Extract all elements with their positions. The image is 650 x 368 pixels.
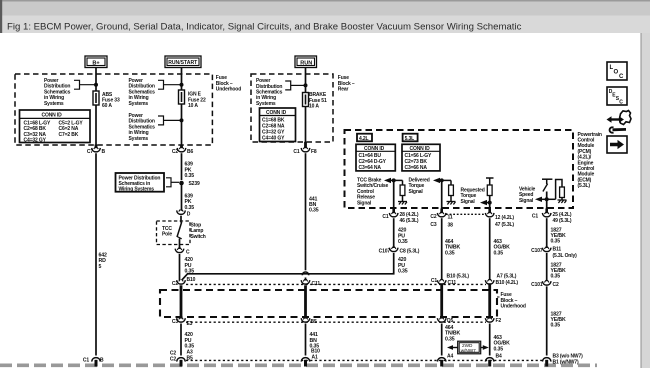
svg-text:C107: C107 bbox=[531, 248, 543, 254]
svg-text:B10 (4.2L): B10 (4.2L) bbox=[496, 280, 519, 286]
svg-text:60 A: 60 A bbox=[102, 103, 112, 109]
svg-text:C2: C2 bbox=[170, 356, 176, 362]
svg-text:(5.3L): (5.3L) bbox=[578, 183, 591, 189]
wire delivered to pin bbox=[441, 180, 443, 213]
svg-text:Signal: Signal bbox=[409, 189, 424, 195]
svg-text:38: 38 bbox=[448, 222, 454, 228]
svg-text:B10 (5.3L): B10 (5.3L) bbox=[447, 273, 470, 279]
bottom cut-off dashed edge (EBCM boundary) bbox=[0, 363, 597, 367]
connector B4 bottom bbox=[485, 358, 494, 362]
4.2L tag box bbox=[357, 134, 372, 142]
wire 639 PK 0.35 lower bbox=[181, 183, 183, 211]
svg-text:D5: D5 bbox=[447, 318, 453, 324]
svg-text:4.2L: 4.2L bbox=[359, 136, 369, 142]
svg-text:C2: C2 bbox=[172, 149, 178, 155]
fuse IGN E Fuse 22 10 A bbox=[179, 90, 185, 104]
wire: RUN/START down to fuse bbox=[181, 68, 183, 91]
svg-text:C2: C2 bbox=[430, 214, 436, 220]
svg-text:C1: C1 bbox=[431, 278, 437, 284]
svg-text:C2: C2 bbox=[172, 281, 178, 287]
wire 463 OG/BK 0.35 bbox=[489, 218, 491, 280]
CONN ID table 5.3L bbox=[402, 144, 440, 171]
wire: B+ down through fuse block bbox=[95, 68, 97, 92]
svg-text:0.35: 0.35 bbox=[398, 269, 408, 275]
sidebar icon DESC button bbox=[607, 87, 627, 105]
svg-text:0.35: 0.35 bbox=[185, 205, 195, 211]
thick wire segments through block bbox=[180, 285, 183, 318]
svg-text:B6: B6 bbox=[187, 149, 193, 155]
svg-text:0.35: 0.35 bbox=[445, 336, 455, 342]
connector B10/A1 bottom bbox=[301, 358, 310, 362]
svg-text:Pole: Pole bbox=[162, 232, 172, 238]
svg-text:A7 (5.3L): A7 (5.3L) bbox=[497, 273, 517, 279]
svg-text:0.35: 0.35 bbox=[309, 208, 319, 214]
svg-text:B4: B4 bbox=[496, 353, 502, 359]
bottom pass-through dotted line bbox=[186, 359, 542, 361]
svg-text:0.35: 0.35 bbox=[445, 250, 455, 256]
svg-text:C3: C3 bbox=[172, 319, 178, 325]
wire below ABS fuse to C7 bbox=[95, 105, 97, 148]
CONN ID table 4.2L bbox=[356, 144, 395, 171]
left window edge bbox=[0, 0, 2, 33]
wire 441 BN 0.35 (to EBCM) bbox=[305, 324, 307, 356]
svg-text:Underhood: Underhood bbox=[501, 304, 526, 310]
svg-text:C7=2 BK: C7=2 BK bbox=[59, 132, 79, 138]
svg-text:(5.3L Only): (5.3L Only) bbox=[553, 253, 578, 259]
connector C1 pins 25/49 bbox=[542, 212, 551, 217]
svg-text:C: C bbox=[619, 100, 623, 106]
svg-text:0.35: 0.35 bbox=[494, 346, 504, 352]
stop lamp switch blade (TCC pole) bbox=[180, 216, 182, 223]
connector C107 / B11 (5.3L Only) bbox=[542, 247, 551, 252]
wire 642 RD 5 down left side bbox=[95, 153, 97, 355]
connector A4 bottom bbox=[437, 358, 446, 362]
svg-text:F8: F8 bbox=[311, 149, 317, 155]
svg-text:0.35: 0.35 bbox=[398, 239, 408, 245]
connector C1 / B bottom left bbox=[92, 358, 101, 362]
signal: Vehicle Speed Signal bbox=[519, 187, 536, 204]
svg-text:C11: C11 bbox=[448, 280, 457, 286]
svg-text:0.35: 0.35 bbox=[494, 250, 504, 256]
PCM/ECM dashed box bbox=[345, 130, 574, 208]
svg-text:C1: C1 bbox=[293, 149, 299, 155]
svg-text:Signal: Signal bbox=[357, 200, 372, 206]
connector pins 12/47 bbox=[485, 212, 494, 217]
connector B5 (block output mid) bbox=[301, 317, 310, 322]
svg-text:Wiring Systems: Wiring Systems bbox=[119, 186, 155, 192]
pointer bracket to RUN/START wire bbox=[158, 80, 182, 89]
wire 463 OG/BK 0.35 (to EBCM) bbox=[489, 324, 491, 356]
svg-text:47 (5.3L): 47 (5.3L) bbox=[495, 222, 514, 228]
svg-text:0.35: 0.35 bbox=[551, 323, 561, 329]
svg-text:C: C bbox=[186, 250, 190, 256]
pull-down resistor (TCC) bbox=[402, 180, 404, 185]
splice S239 bbox=[179, 181, 184, 186]
connector D5 (block output) bbox=[437, 317, 446, 322]
svg-text:Underhood: Underhood bbox=[216, 87, 241, 93]
signal: Delivered Torque Signal bbox=[409, 178, 430, 195]
fuse ABS Fuse 33 60 A bbox=[93, 91, 99, 105]
2WD w/NW7 option box with arrows bbox=[458, 341, 481, 354]
CONN ID table (underhood) bbox=[20, 110, 91, 143]
svg-text:0.35: 0.35 bbox=[551, 274, 561, 280]
connector D (stop lamp switch input) bbox=[177, 209, 186, 214]
ground (delivered) bbox=[447, 202, 456, 205]
svg-text:D: D bbox=[187, 211, 191, 217]
svg-text:Fig 1: EBCM Power, Ground, Ser: Fig 1: EBCM Power, Ground, Serial Data, … bbox=[7, 22, 522, 33]
pointer bracket to RUN wire bbox=[285, 81, 305, 90]
svg-text:Systems: Systems bbox=[256, 101, 276, 107]
thick terminal stubs below PCM bbox=[392, 209, 395, 214]
svg-text:CONN ID: CONN ID bbox=[266, 110, 287, 116]
connector C2 / B10 (into underhood block) bbox=[177, 279, 186, 284]
connector C2 / B6 bbox=[177, 147, 186, 152]
svg-text:Systems: Systems bbox=[129, 136, 149, 142]
ground (VSS) bbox=[558, 200, 567, 203]
svg-text:0.35: 0.35 bbox=[551, 239, 561, 245]
RUN terminal box bbox=[295, 56, 317, 68]
note: Power Distribution Schematics (IGN feed upper) bbox=[129, 78, 156, 107]
svg-text:11: 11 bbox=[448, 214, 453, 220]
svg-text:C1: C1 bbox=[532, 213, 538, 219]
wire TCC to pin bbox=[393, 180, 395, 213]
junction dot on B+ wire bbox=[94, 83, 98, 87]
wire 420 PU 0.35 (PCM lower) bbox=[393, 253, 395, 273]
PCM pin row dotted link bbox=[446, 213, 486, 215]
svg-text:CONN ID: CONN ID bbox=[42, 113, 63, 119]
wire 1827 YE/BK 0.35 (lower) bbox=[546, 286, 548, 355]
underhood fuse block connector dashed box bbox=[160, 290, 497, 317]
svg-text:12 (4.2L): 12 (4.2L) bbox=[495, 215, 514, 221]
svg-text:Switch: Switch bbox=[191, 234, 206, 240]
svg-text:F2: F2 bbox=[496, 318, 502, 324]
connector C11 bbox=[301, 279, 310, 284]
wire 420 PU 0.35 (switch to junction) bbox=[179, 254, 181, 280]
pointer bracket to B+ wire bbox=[74, 80, 96, 89]
connector C3 / E3 (block output) bbox=[177, 317, 186, 322]
svg-text:RUN: RUN bbox=[300, 60, 312, 66]
svg-text:C107: C107 bbox=[379, 249, 391, 255]
wire 420 PU 0.35 (PCM upper) bbox=[393, 218, 395, 248]
note: Power Distribution Schematics (brake fuse) bbox=[256, 78, 283, 107]
svg-text:0.35: 0.35 bbox=[185, 173, 195, 179]
pull-down resistor (delivered) bbox=[450, 180, 452, 185]
wire 1827 YE/BK 0.35 (middle) bbox=[546, 253, 548, 281]
sidebar icon shortcut-arrow + wrench bbox=[607, 111, 632, 133]
svg-text:5: 5 bbox=[99, 264, 102, 270]
label: Fuse Block - Underhood bbox=[216, 75, 241, 92]
sidebar icon LOC button bbox=[607, 62, 627, 80]
svg-text:S239: S239 bbox=[189, 181, 200, 187]
pointer bracket to S239 bbox=[166, 178, 179, 187]
svg-text:C3: C3 bbox=[430, 222, 436, 228]
pass-through dotted line bottom row bbox=[186, 321, 486, 323]
label: Powertrain Control Module (PCM)(4.2L)/Engine Control Module (ECM)(5.3L) bbox=[578, 132, 602, 189]
VSS switch contact and blade bbox=[542, 178, 552, 180]
label: Fuse Block - Rear bbox=[338, 75, 355, 92]
svg-text:Signal: Signal bbox=[519, 198, 534, 204]
junction dot lower bbox=[180, 118, 184, 122]
connector C1 / F8 bbox=[301, 147, 310, 152]
connector C1 / B10 (5.3L) C11 bbox=[437, 279, 446, 284]
title bar bbox=[0, 16, 650, 34]
svg-text:C8 (5.3L): C8 (5.3L) bbox=[400, 249, 420, 255]
sidebar icon next-arrow button bbox=[607, 136, 627, 153]
svg-text:Rear: Rear bbox=[338, 87, 349, 93]
connector C2/C3 pins 11/38 bbox=[437, 212, 446, 217]
svg-text:C1: C1 bbox=[382, 214, 388, 220]
right scrollbar track bbox=[641, 33, 650, 368]
svg-text:CONN ID: CONN ID bbox=[364, 146, 385, 152]
svg-text:Systems: Systems bbox=[44, 101, 64, 107]
5.3L tag box bbox=[403, 134, 418, 142]
connector A7 (5.3L) / B10 (4.2L) bbox=[485, 279, 494, 284]
svg-text:5.3L: 5.3L bbox=[405, 136, 415, 142]
fuse block rear dashed box bbox=[251, 74, 333, 142]
svg-text:Systems: Systems bbox=[129, 101, 149, 107]
connector C2/C2 A3/B5 bottom bbox=[177, 358, 186, 362]
wire below BRAKE fuse to C1 bbox=[305, 107, 307, 148]
svg-text:B: B bbox=[100, 358, 104, 364]
svg-text:C2: C2 bbox=[553, 282, 559, 288]
svg-text:B11: B11 bbox=[553, 247, 562, 253]
svg-text:C101: C101 bbox=[531, 282, 543, 288]
connector C107 / C8 (5.3L) bbox=[389, 247, 398, 252]
svg-text:O: O bbox=[614, 70, 619, 76]
B+ terminal box bbox=[85, 56, 107, 68]
svg-text:46 (5.3L): 46 (5.3L) bbox=[400, 218, 419, 224]
thick terminal stubs above fuse block output connectors bbox=[95, 145, 98, 149]
svg-text:C4=40 GY: C4=40 GY bbox=[262, 136, 285, 142]
svg-text:Signal: Signal bbox=[461, 199, 476, 205]
svg-text:A4: A4 bbox=[447, 353, 453, 359]
wire 639 PK 0.35 upper bbox=[181, 153, 183, 180]
pointer bracket lower bbox=[158, 116, 182, 125]
wire 464 TN/BK 0.35 bbox=[441, 218, 443, 280]
svg-text:C4=32 GY: C4=32 GY bbox=[24, 137, 47, 143]
svg-text:C: C bbox=[619, 74, 624, 80]
svg-text:RUN/START: RUN/START bbox=[168, 60, 198, 66]
connector C (switch output) bbox=[175, 248, 184, 253]
TCC Pole dashed box bbox=[157, 221, 191, 245]
pass-through dotted line top row bbox=[186, 283, 486, 285]
ground (TCC) bbox=[398, 202, 407, 205]
svg-text:C3=64 NA: C3=64 NA bbox=[359, 165, 382, 171]
RUN/START terminal box bbox=[165, 56, 201, 68]
connector C7 / B bbox=[92, 147, 101, 152]
svg-text:B1 (w/NW7): B1 (w/NW7) bbox=[553, 359, 579, 365]
signal: Requested Torque Signal bbox=[461, 188, 485, 205]
wire: RUN down to fuse bbox=[305, 68, 307, 93]
connector C101 / C2 bbox=[542, 280, 551, 285]
note: Power Distribution Schematics (IGN feed lower) bbox=[129, 113, 156, 142]
svg-text:A1: A1 bbox=[312, 354, 318, 360]
wire 464 TN/BK 0.35 (to EBCM) bbox=[441, 324, 443, 356]
svg-text:CONN ID: CONN ID bbox=[410, 146, 431, 152]
CONN ID table (rear) bbox=[260, 108, 296, 142]
fuse BRAKE Fuse 51 10 A bbox=[303, 93, 309, 107]
fuse block underhood dashed box bbox=[15, 74, 212, 145]
wire 441 BN 0.35 from brake fuse bbox=[305, 153, 307, 270]
svg-text:10 A: 10 A bbox=[188, 103, 198, 109]
junction dot on RUN/START wire bbox=[180, 83, 184, 87]
svg-text:C7: C7 bbox=[87, 149, 93, 155]
note box: Power Distribution Schematics in Wiring Systems bbox=[116, 173, 165, 192]
note: Power Distribution Schematics (B+ feed) bbox=[44, 78, 71, 107]
pull-up resistor (requested) bbox=[486, 177, 494, 179]
wire hop: 441 BN crosses 420 PU bbox=[302, 272, 308, 275]
connector C1 pin 28/46 bbox=[389, 212, 398, 217]
wire: IGN E fuse down to C2 bbox=[181, 104, 183, 148]
wire 1827 YE/BK 0.35 (upper) bbox=[546, 218, 548, 248]
VSS pull-up resistor to ground bbox=[556, 180, 562, 200]
svg-text:C3=66 NA: C3=66 NA bbox=[405, 165, 428, 171]
svg-text:w/NW7: w/NW7 bbox=[461, 348, 476, 353]
top toolbar band bbox=[0, 0, 650, 16]
label: Fuse Block - Underhood (lower) bbox=[497, 296, 500, 298]
signal: TCC Brake Switch/Cruise Control Release Signal bbox=[357, 178, 388, 207]
svg-text:10 A: 10 A bbox=[309, 104, 319, 110]
svg-text:49 (5.3L): 49 (5.3L) bbox=[553, 218, 572, 224]
svg-text:B+: B+ bbox=[92, 60, 100, 66]
connector B3/B1 bottom right bbox=[542, 358, 551, 362]
connector F2 (block output) bbox=[485, 317, 494, 322]
horizontal 420 PU wire from PCM bbox=[182, 272, 394, 280]
wire 420 PU 0.35 (to EBCM) bbox=[180, 324, 182, 356]
svg-text:B: B bbox=[102, 149, 106, 155]
label: Stop Lamp Switch bbox=[191, 223, 206, 240]
junction dot on RUN wire bbox=[304, 83, 308, 87]
svg-text:C1: C1 bbox=[83, 358, 89, 364]
svg-text:B10: B10 bbox=[187, 277, 196, 283]
